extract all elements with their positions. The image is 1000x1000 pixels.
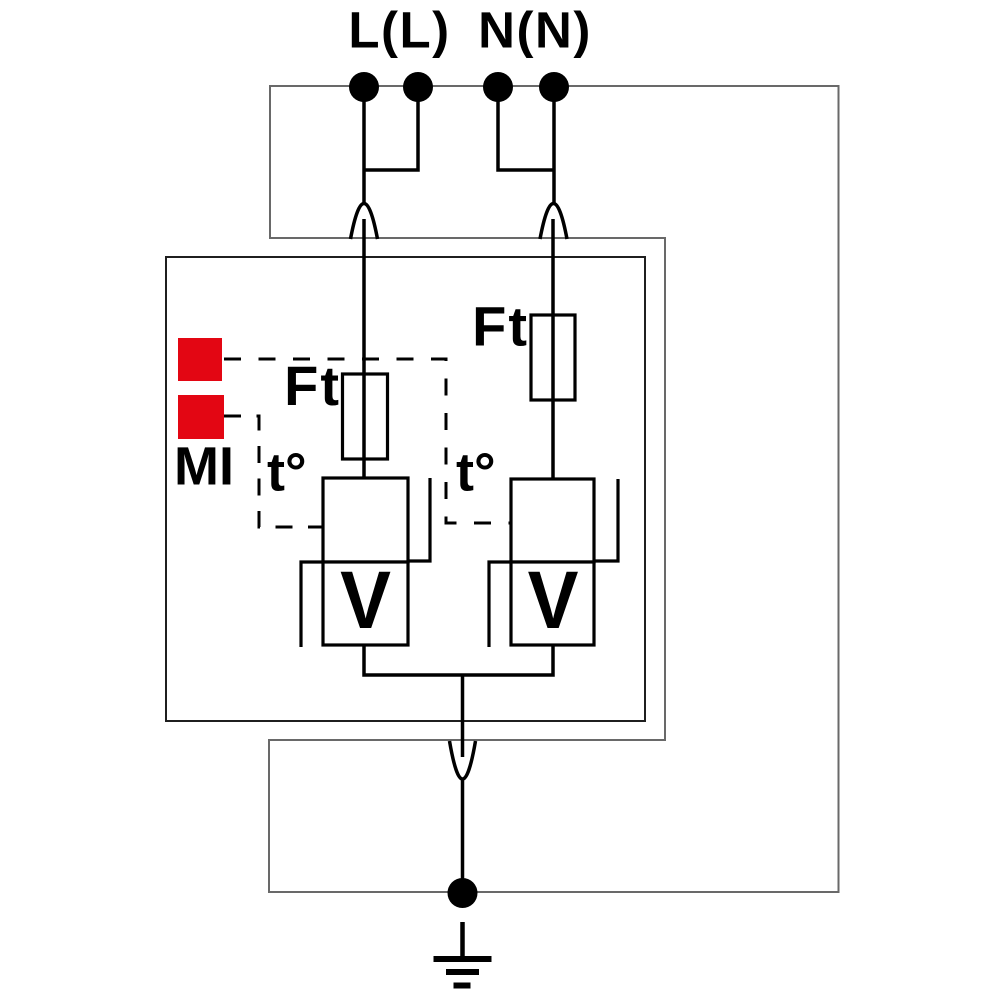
junction node: [448, 878, 478, 908]
svg-text:Ft: Ft: [472, 295, 529, 358]
svg-text:t°: t°: [267, 443, 307, 503]
fuse Ft left: [343, 374, 388, 459]
thermal linkage dashed path to right disconnector: [224, 359, 511, 523]
fuse Ft right: [531, 315, 575, 400]
LED indicator 2: [178, 395, 224, 439]
wire centre tap down: [461, 675, 465, 757]
wire N drop from terminal 4: [552, 87, 556, 203]
wire L terminal 2 jumper: [364, 87, 418, 170]
terminal dot L1: [349, 72, 379, 102]
varistor left: varistor box: [323, 562, 408, 645]
varistor left: right disconnect stroke: [408, 478, 430, 561]
wire L drop from terminal 1: [362, 87, 366, 203]
varistor right: disconnector box: [511, 479, 594, 562]
varistor right: varistor box: [511, 562, 594, 645]
svg-text:N(N): N(N): [478, 2, 592, 59]
wire N terminal 3 jumper: [498, 87, 554, 170]
plug-in contact PE (arch, downward): [450, 741, 476, 779]
protection module outline: [166, 257, 645, 721]
wire N inside module: [551, 219, 555, 479]
svg-text:V: V: [528, 553, 579, 645]
wire L inside module: [362, 219, 366, 478]
varistor left: left disconnect stroke: [301, 562, 323, 647]
ground bar 3: [454, 983, 471, 989]
wire PE down to junction: [461, 779, 465, 892]
ground bar 1: [434, 956, 492, 962]
svg-text:L(L): L(L): [348, 2, 450, 59]
svg-text:V: V: [340, 553, 391, 645]
svg-text:MI: MI: [174, 437, 234, 497]
thermal linkage dashed path to left disconnector: [224, 416, 323, 527]
plug-in contact L (arch): [351, 204, 378, 240]
terminal dot N1: [483, 72, 513, 102]
ground bar 2: [446, 969, 479, 975]
ground stem: [460, 922, 465, 958]
terminal dot L2: [403, 72, 433, 102]
svg-text:t°: t°: [456, 443, 496, 503]
svg-text:Ft: Ft: [284, 354, 341, 417]
varistor right: right disconnect stroke: [594, 479, 618, 561]
varistor right: left disconnect stroke: [489, 562, 511, 647]
LED indicator 1: [178, 338, 222, 381]
plug-in contact N (arch): [540, 204, 567, 240]
base unit outline (enclosure with plug-in recess): [269, 86, 839, 892]
bottom bus wire: [364, 645, 553, 675]
varistor left: disconnector box: [323, 478, 408, 562]
terminal dot N2: [539, 72, 569, 102]
